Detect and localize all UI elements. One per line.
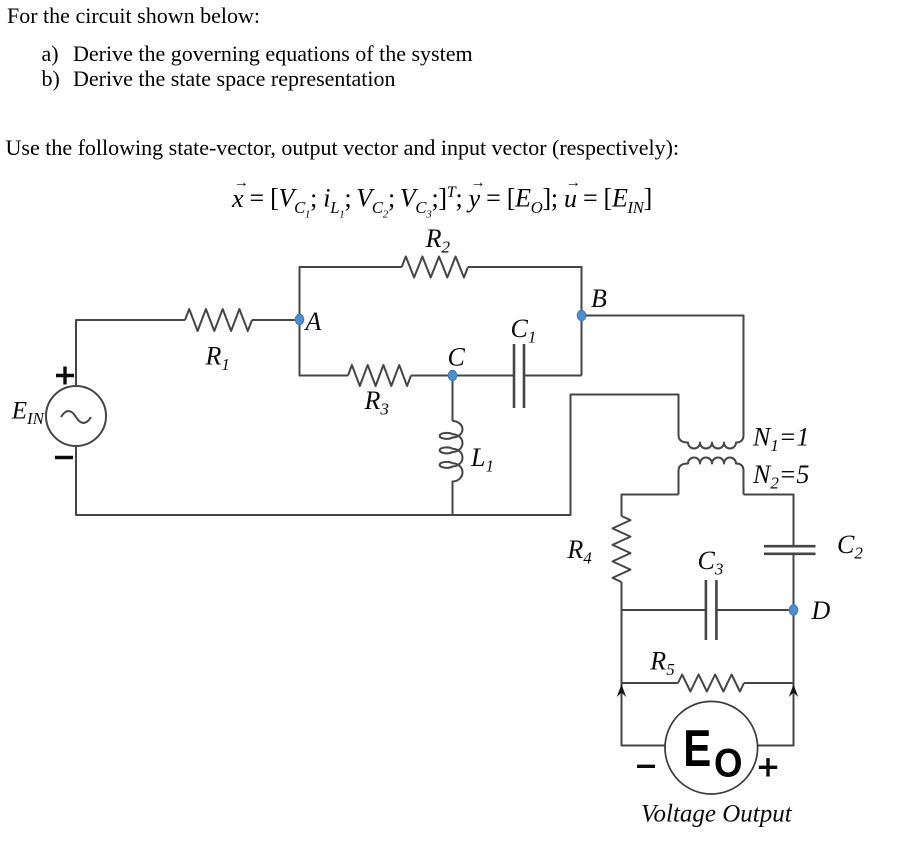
svg-text:R1: R1 bbox=[205, 342, 230, 375]
svg-text:EIN: EIN bbox=[11, 398, 46, 429]
svg-text:O: O bbox=[714, 741, 743, 785]
svg-text:C2: C2 bbox=[837, 530, 863, 563]
svg-text:B: B bbox=[591, 284, 607, 313]
svg-text:C1: C1 bbox=[511, 314, 537, 347]
svg-text:L1: L1 bbox=[470, 443, 494, 476]
svg-text:N2=5: N2=5 bbox=[752, 460, 809, 493]
svg-text:R4: R4 bbox=[566, 535, 592, 568]
svg-text:D: D bbox=[811, 596, 831, 625]
svg-text:E: E bbox=[683, 720, 711, 778]
svg-text:C: C bbox=[448, 343, 466, 372]
svg-text:N1=1: N1=1 bbox=[752, 423, 809, 456]
svg-text:C3: C3 bbox=[698, 546, 724, 579]
svg-text:R5: R5 bbox=[649, 646, 674, 679]
svg-text:R3: R3 bbox=[364, 386, 389, 419]
svg-text:R2: R2 bbox=[425, 224, 451, 257]
svg-text:Voltage Output: Voltage Output bbox=[641, 801, 793, 828]
svg-text:A: A bbox=[304, 307, 322, 336]
